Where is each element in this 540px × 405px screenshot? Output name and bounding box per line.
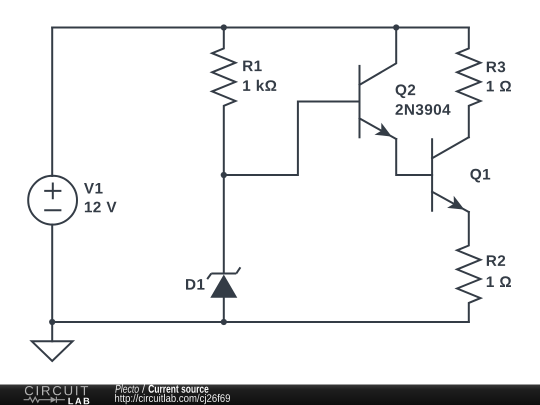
- label R1 value: [243, 80, 276, 91]
- node A junction: [221, 172, 227, 178]
- footer title separator: [142, 385, 145, 393]
- resistor R3: [457, 28, 480, 138]
- label V1 value: [85, 202, 117, 213]
- transistor Q2: [360, 28, 397, 140]
- wire node A to Q2 base: [224, 102, 360, 176]
- voltage source V1: [28, 176, 77, 225]
- footer title Current source: [149, 385, 209, 393]
- logo CIRCUIT text: [25, 386, 88, 395]
- footer url: [115, 394, 230, 404]
- wire top rail: [52, 27, 469, 29]
- transistor Q1: [432, 137, 469, 212]
- wire left rail lower (V1 to bottom rail): [51, 225, 53, 323]
- resistor R1: [212, 28, 235, 176]
- label Q2 part: [396, 104, 451, 115]
- label R3: [487, 61, 505, 72]
- label R2: [487, 255, 505, 266]
- wire Q2 emitter to Q1 base: [396, 139, 432, 175]
- node: Q2 collector junction: [393, 24, 399, 30]
- label R1: [243, 61, 262, 72]
- label Q1: [470, 169, 490, 183]
- node: D1 bottom junction: [221, 319, 227, 325]
- ground: [32, 322, 73, 361]
- label D1: [186, 279, 205, 290]
- label V1: [84, 183, 103, 194]
- footer title Plecto: [115, 385, 139, 393]
- wire left rail upper (top rail to V1): [51, 28, 53, 177]
- label R3 value: [487, 81, 511, 92]
- wire bottom rail: [52, 321, 469, 323]
- node: R1 top junction: [221, 24, 227, 30]
- label R2 value: [487, 276, 511, 287]
- logo doodle: resistor zigzag: [24, 397, 51, 402]
- label Q2: [396, 84, 416, 98]
- node: ground junction: [49, 319, 55, 325]
- zener diode D1: [207, 175, 240, 322]
- logo LAB text: [68, 398, 89, 404]
- logo doodle: diode: [51, 397, 65, 403]
- resistor R2: [457, 212, 480, 322]
